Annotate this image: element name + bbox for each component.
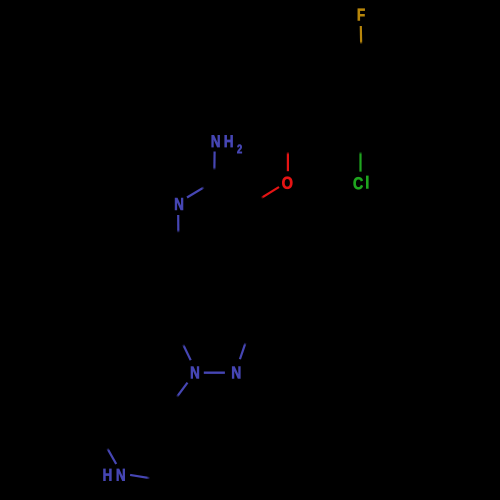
- bond N2'=C3' pyrazole (nitrogen half): [240, 343, 246, 360]
- piperidine HN label letter N: [117, 469, 125, 481]
- fluorine F1 label: [358, 9, 365, 21]
- bond N1=C2 pyridine (nitrogen half): [187, 187, 204, 197]
- chlorine Cl1 label letter C: [354, 177, 363, 189]
- bond N-C6'' piperidine (nitrogen half): [130, 475, 150, 478]
- bond N1'-C5' pyrazole (nitrogen half): [183, 344, 191, 360]
- piperidine HN label letter H: [104, 469, 112, 481]
- amino NH2 label letter N: [212, 135, 220, 147]
- amino NH2 subscript 2: [237, 145, 241, 154]
- bond N1'-N2' pyrazole: [204, 372, 225, 374]
- bond N1'-C4'' piperidine link (nitrogen half): [177, 383, 188, 397]
- pyridine N1 label: [175, 198, 183, 210]
- bond N-C2'' piperidine (nitrogen half): [107, 448, 116, 464]
- bond O-C3 pyridine (oxygen half): [261, 187, 279, 198]
- bond O-CH2 benzylic (oxygen half): [287, 152, 289, 172]
- pyrazole N1' label: [191, 367, 199, 379]
- amino NH2 label letter H: [225, 135, 233, 147]
- pyrazole N2' label: [232, 367, 240, 379]
- chlorine Cl1 label letter l: [366, 176, 368, 188]
- bond C2-NH2 (nitrogen half): [213, 152, 215, 171]
- oxygen O1 ether label: [282, 177, 292, 189]
- bond N1-C6 pyridine (nitrogen half): [177, 215, 179, 233]
- bond C-Cl (chlorine half): [359, 152, 361, 172]
- bond C-F (fluorine half): [360, 26, 363, 44]
